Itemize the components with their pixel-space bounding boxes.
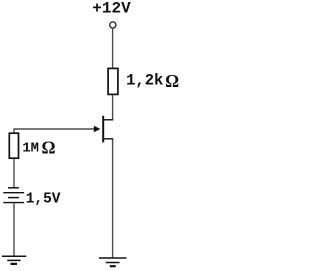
svg-text:+12V: +12V bbox=[92, 0, 131, 18]
wire terminal to R1 bbox=[112, 28, 114, 68]
ground left bar 2 bbox=[7, 259, 20, 261]
ground left bar 3 bbox=[11, 263, 18, 265]
battery B1 plate long 1 bbox=[3, 192, 24, 194]
ground left bar 1 bbox=[2, 255, 26, 257]
battery B1 plate short 1 bbox=[8, 187, 19, 189]
battery B1 plate long 2 bbox=[3, 202, 24, 204]
wire battery B1 to ground bbox=[13, 203, 15, 257]
ground right bar 3 bbox=[110, 265, 116, 267]
svg-text:1MΩ: 1MΩ bbox=[22, 138, 55, 158]
wire R2 to battery B1 bbox=[13, 159, 15, 188]
svg-text:1,5V: 1,5V bbox=[26, 192, 61, 208]
transistor Q1 drain lead bbox=[103, 119, 113, 121]
resistor R2 bbox=[9, 133, 18, 158]
svg-text:1,2kΩ: 1,2kΩ bbox=[126, 71, 179, 91]
transistor Q1 gate wire bbox=[14, 129, 95, 133]
transistor Q1 gate arrow bbox=[94, 126, 101, 132]
terminal +12V bbox=[110, 22, 116, 28]
transistor Q1 source lead bbox=[103, 138, 113, 140]
ground right bar 2 bbox=[106, 262, 120, 264]
battery B1 plate short 2 bbox=[8, 197, 19, 199]
transistor Q1 channel bar bbox=[102, 116, 104, 143]
wire R1 to Q1 drain bbox=[112, 95, 114, 119]
wire Q1 source to ground bbox=[112, 139, 114, 258]
ground right bar 1 bbox=[99, 257, 127, 259]
resistor R1 bbox=[108, 68, 118, 94]
